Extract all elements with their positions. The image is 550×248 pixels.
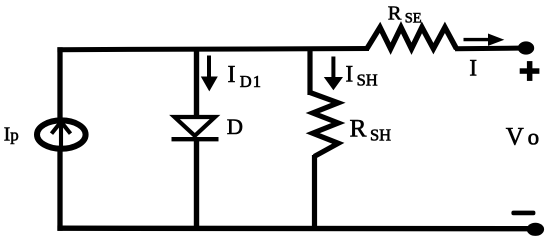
wire left vertical upper xyxy=(57,47,62,120)
wire diode branch lower xyxy=(194,138,199,228)
minus sign xyxy=(511,211,535,216)
wire shunt branch lower xyxy=(312,155,317,228)
diode D cathode bar xyxy=(172,137,219,141)
wire bottom horizontal xyxy=(57,225,535,231)
diode D (triangle) xyxy=(175,117,216,136)
terminal - (dot) xyxy=(527,223,544,236)
current source Ip (ellipse) xyxy=(37,120,86,148)
svg-text:I: I xyxy=(469,56,477,81)
arrow I (right) xyxy=(464,34,505,46)
plus sign xyxy=(520,61,540,81)
svg-text:SH: SH xyxy=(370,125,391,144)
resistor R_SE (horizontal zigzag) xyxy=(367,27,457,49)
arrow I_SH (down) xyxy=(324,57,343,91)
svg-text:I: I xyxy=(228,62,236,88)
svg-text:R: R xyxy=(350,113,367,142)
svg-text:Ip: Ip xyxy=(4,125,19,146)
svg-text:o: o xyxy=(528,124,540,149)
wire left vertical lower xyxy=(57,150,62,231)
svg-text:V: V xyxy=(506,123,524,150)
svg-text:D: D xyxy=(227,114,243,139)
svg-text:SH: SH xyxy=(357,70,378,89)
terminal + (dot) xyxy=(518,41,534,54)
arrow I_D1 (down) xyxy=(201,56,218,92)
svg-text:I: I xyxy=(346,61,354,86)
resistor R_SH (vertical zigzag) xyxy=(310,93,338,157)
wire shunt branch upper xyxy=(307,47,312,95)
svg-text:D1: D1 xyxy=(240,72,262,91)
current source arrow (up) xyxy=(52,122,71,146)
svg-text:R: R xyxy=(388,3,402,25)
svg-text:SE: SE xyxy=(405,10,422,26)
wire top right (R_SE to + terminal) xyxy=(455,46,526,52)
wire top horizontal (node A to R_SE) xyxy=(57,49,369,50)
wire diode branch upper xyxy=(194,47,199,118)
